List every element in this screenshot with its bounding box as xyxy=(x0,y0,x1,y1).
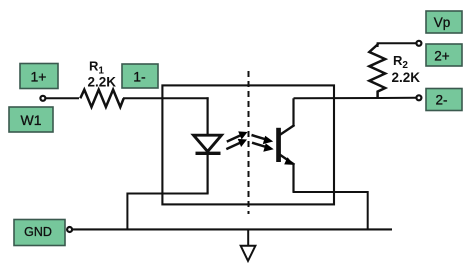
label R1 xyxy=(88,58,117,89)
light arrows LED to transistor xyxy=(226,131,273,151)
svg-text:Vp: Vp xyxy=(434,15,451,30)
resistor R2 xyxy=(369,44,385,98)
ground xyxy=(241,230,256,261)
terminal node 2+ (open circle) xyxy=(416,41,421,46)
ground bus wire xyxy=(73,228,393,230)
terminal label 1- xyxy=(122,64,158,88)
wire W1 terminal to R1 xyxy=(46,97,79,99)
svg-text:1+: 1+ xyxy=(31,68,47,84)
wire collector to node 2- xyxy=(294,97,417,100)
svg-text:1-: 1- xyxy=(133,68,146,84)
svg-text:W1: W1 xyxy=(21,112,42,128)
terminal node GND (open circle) xyxy=(67,227,72,232)
terminal label W1 xyxy=(9,107,53,132)
resistor R1 xyxy=(80,90,123,107)
phototransistor Q1 base bar xyxy=(276,128,281,162)
optocoupler U1 package outline xyxy=(162,85,334,204)
terminal label GND xyxy=(14,220,65,246)
phototransistor Q1 emitter with arrow xyxy=(280,155,295,192)
svg-text:R2: R2 xyxy=(393,53,408,71)
terminal label 2+ xyxy=(426,44,462,66)
phototransistor Q1 collector xyxy=(280,98,295,135)
terminal label 2- xyxy=(426,89,462,111)
terminal node W1 (open circle) xyxy=(40,96,45,101)
terminal label 1+ xyxy=(20,64,58,89)
svg-text:2.2K: 2.2K xyxy=(392,70,421,85)
svg-text:2.2K: 2.2K xyxy=(88,75,117,90)
LED D1 cathode bar xyxy=(196,152,221,155)
wire emitter to ground bus xyxy=(293,192,368,230)
optocoupler internal divider (dashed) xyxy=(248,71,250,214)
terminal node 2- (open circle) xyxy=(416,95,421,100)
LED D1 triangle xyxy=(194,135,222,151)
terminal label Vp xyxy=(426,11,462,33)
svg-text:2+: 2+ xyxy=(434,49,450,64)
wire 2+ terminal to R2 top xyxy=(378,43,416,47)
LED D1 cathode lead xyxy=(207,153,209,193)
wire LED cathode return to ground bus xyxy=(127,194,208,230)
svg-text:2-: 2- xyxy=(435,93,447,108)
wire R1 to LED anode (node 1-) xyxy=(123,97,209,99)
LED D1 anode lead xyxy=(207,97,209,135)
label R2 xyxy=(392,53,421,85)
svg-text:GND: GND xyxy=(24,225,52,239)
